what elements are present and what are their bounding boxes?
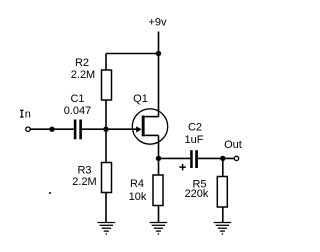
svg-text:Out: Out xyxy=(224,139,242,151)
svg-text:220k: 220k xyxy=(185,188,209,200)
svg-text:2.2M: 2.2M xyxy=(72,176,96,188)
svg-text:0.047: 0.047 xyxy=(64,105,92,117)
svg-text:+9v: +9v xyxy=(148,17,167,29)
svg-text:R4: R4 xyxy=(130,178,144,190)
svg-text:R3: R3 xyxy=(77,165,91,177)
svg-text:n: n xyxy=(25,109,31,121)
svg-text:R2: R2 xyxy=(75,57,89,69)
svg-text:Q1: Q1 xyxy=(133,93,148,105)
svg-text:C2: C2 xyxy=(188,122,202,134)
svg-text:2.2M: 2.2M xyxy=(71,69,95,81)
svg-text:C1: C1 xyxy=(70,93,84,105)
svg-text:10k: 10k xyxy=(129,191,147,203)
svg-text:1uF: 1uF xyxy=(185,134,204,146)
